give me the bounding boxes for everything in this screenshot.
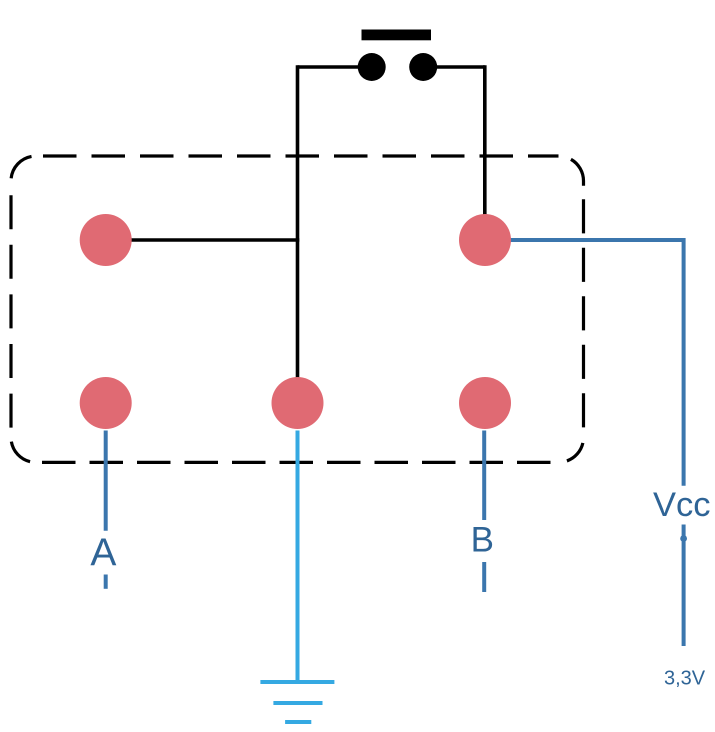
component outline: dashed box top edge	[36, 154, 559, 157]
svg-text:B: B	[471, 521, 494, 560]
wire B: from bottom-right pad down	[482, 431, 486, 521]
wire: vertical from switch left down to bottom-middle pad	[296, 65, 300, 379]
wire: switch left lead	[298, 65, 372, 69]
wire: vertical from switch right down to top-right pad	[483, 65, 487, 216]
component outline: dashed box bottom-right corner	[559, 437, 584, 462]
component outline: dashed box left edge	[9, 181, 12, 437]
junction dot on Vcc wire	[680, 535, 687, 542]
ground symbol: top bar	[260, 680, 334, 684]
ground symbol: bottom bar	[285, 720, 311, 724]
wire A: from bottom-left pad down	[104, 431, 108, 531]
ground symbol: middle bar	[273, 701, 322, 705]
component outline: dashed box bottom-left corner	[11, 437, 36, 462]
pad: top-right	[459, 214, 511, 266]
component outline: dashed box top-left corner	[11, 156, 36, 183]
wire GND: from bottom-middle pad down	[296, 431, 300, 683]
component outline: dashed box bottom edge	[36, 461, 559, 464]
svg-text:A: A	[90, 532, 116, 575]
wire Vcc: from top-right pad right and down	[508, 240, 684, 486]
wire: switch right lead	[423, 65, 485, 69]
pad: top-left	[80, 214, 132, 266]
svg-text:Vcc: Vcc	[653, 486, 711, 524]
wire B: stub below label	[482, 562, 486, 592]
pad: bottom-right	[459, 377, 511, 429]
wire Vcc: lower segment below label	[682, 525, 686, 647]
wire: horizontal from top-left pad to center vertical	[130, 238, 299, 242]
pad: bottom-middle	[272, 377, 324, 429]
svg-text:3,3V: 3,3V	[664, 668, 706, 690]
component outline: dashed box right edge	[582, 186, 585, 437]
component outline: dashed box top-right corner	[559, 156, 584, 186]
wire A: stub below label	[104, 575, 108, 589]
pushbutton S1 right contact dot	[409, 53, 437, 81]
pushbutton S1 actuator bar	[362, 30, 432, 41]
pad: bottom-left	[80, 377, 132, 429]
pushbutton S1 left contact dot	[358, 53, 386, 81]
